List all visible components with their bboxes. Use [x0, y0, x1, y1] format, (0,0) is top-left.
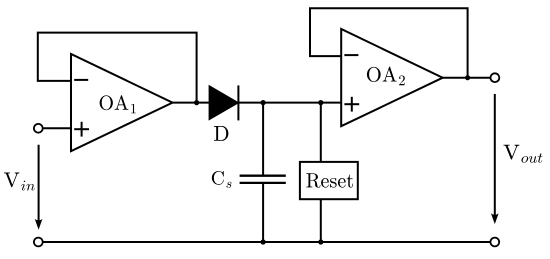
wire reset top lead — [320, 103, 322, 162]
terminal bottom-left (open circle) — [34, 238, 43, 247]
wire input terminal to OA1 + input — [43, 127, 72, 129]
wire OA2 output — [442, 77, 490, 79]
label OA1 — [100, 95, 136, 113]
node capacitor top junction — [261, 100, 266, 105]
wire capacitor top lead — [262, 103, 264, 176]
OA1 plus sign — [74, 122, 89, 137]
wire capacitor bottom lead — [262, 183, 264, 242]
op-amp OA2 — [341, 29, 443, 126]
wire main rail OA1 output to OA2 + input — [172, 102, 342, 104]
OA2 minus sign — [344, 54, 358, 56]
node bottom reset junction — [318, 239, 323, 244]
reset box — [300, 162, 358, 199]
wire reset bottom lead — [320, 199, 322, 242]
node OA2 feedback junction — [465, 75, 470, 80]
terminal bottom-right (open circle) — [490, 238, 499, 247]
op-amp OA1 — [71, 54, 173, 151]
wire feedback loop OA1 (output to inverting input) — [38, 33, 197, 103]
Vout arrow — [494, 94, 496, 217]
label Reset — [306, 173, 353, 188]
Vin arrow — [38, 145, 40, 222]
wire bottom rail — [43, 241, 490, 243]
label Vout — [504, 145, 543, 163]
terminal input (open circle) — [34, 124, 43, 133]
OA2 plus sign — [344, 97, 359, 112]
label Cs — [212, 171, 232, 188]
diode D — [209, 86, 238, 119]
terminal output (open circle) — [491, 73, 500, 82]
label Vin — [4, 173, 35, 191]
OA1 minus sign — [74, 79, 88, 81]
label D — [214, 126, 228, 141]
wire feedback loop OA2 (output to inverting input) — [310, 8, 468, 78]
capacitor Cs — [240, 176, 286, 183]
node bottom capacitor junction — [261, 239, 266, 244]
label OA2 — [367, 67, 405, 86]
node OA1 output junction — [194, 100, 199, 105]
node reset top junction — [318, 100, 323, 105]
